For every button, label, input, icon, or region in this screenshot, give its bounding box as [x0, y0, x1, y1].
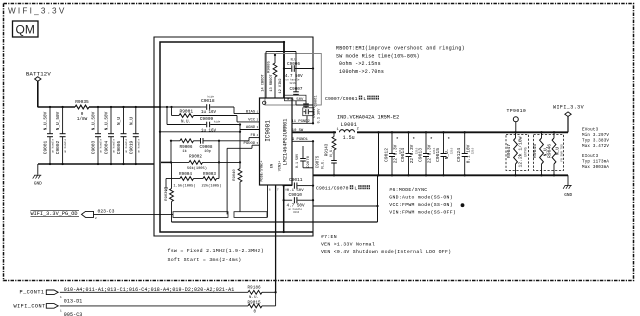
svg-text:C9011/C9070: C9011/C9070 [316, 185, 349, 191]
svg-text:GND:Auto mode(SS-ON): GND:Auto mode(SS-ON) [389, 195, 453, 201]
svg-text:BATT12V: BATT12V [26, 71, 51, 78]
wire BIAS to pin [234, 107, 260, 114]
wire R9186 to EN [262, 291, 277, 293]
svg-text:100ohm->2.70ns: 100ohm->2.70ns [339, 69, 384, 75]
wire AGND to pin [240, 129, 260, 131]
svg-text:Typ 3.383V: Typ 3.383V [582, 140, 609, 144]
net name WIFI_CONT route [64, 299, 83, 305]
svg-text:R9002: R9002 [189, 154, 202, 159]
svg-text:VIN:FPWM mode(SS-OFF): VIN:FPWM mode(SS-OFF) [389, 210, 456, 216]
wire SW [292, 131, 336, 133]
inductor L9001 [337, 114, 400, 141]
capacitor C9061 [303, 95, 318, 108]
svg-text:0.1 16V: 0.1 16V [317, 108, 321, 124]
svg-text:R9015: R9015 [248, 301, 262, 305]
wire pg loop box [173, 212, 228, 218]
svg-text:N_U: N_U [117, 117, 122, 125]
svg-text:EVT#5: EVT#5 [524, 147, 528, 157]
wire MODE/SYNC pin drop [267, 185, 269, 217]
pin PGOOD 5 [244, 142, 259, 146]
capacitor C9009 [200, 116, 240, 133]
svg-text:C9005: C9005 [116, 140, 122, 154]
svg-text:C9001: C9001 [43, 140, 49, 154]
note label C9007/C9061 L-type [325, 96, 379, 102]
svg-text:SW mode Rise time(10%-80%): SW mode Rise time(10%-80%) [336, 53, 420, 59]
input port P_CONT1 [20, 289, 63, 298]
outer block box [154, 37, 313, 236]
svg-text:un handle: un handle [63, 139, 67, 153]
capacitor C9002 [55, 106, 67, 165]
wire R9002 row extension [219, 161, 240, 163]
svg-text:3216: 3216 [289, 82, 296, 85]
svg-text:hide: hide [208, 95, 215, 99]
pin AGND 3 [246, 126, 259, 130]
svg-text:un handle: un handle [112, 139, 116, 153]
svg-text:2: 2 [357, 128, 359, 132]
svg-text:C9010: C9010 [289, 192, 303, 198]
svg-text:N_U_50V: N_U_50V [56, 111, 61, 130]
capacitor C9010 [284, 192, 314, 214]
svg-text:P_CONT1: P_CONT1 [20, 289, 45, 295]
pin label EN [270, 164, 279, 192]
svg-text:1u 16V: 1u 16V [201, 111, 217, 115]
svg-text:Max 3003mA: Max 3003mA [582, 166, 609, 170]
pin 9 PGND1 [292, 138, 314, 142]
svg-text:C9011: C9011 [289, 177, 303, 183]
svg-text:C9018: C9018 [201, 98, 215, 104]
resistor R9045 [532, 131, 548, 176]
wire R9001 row [172, 107, 180, 116]
note MODE/SYNC [389, 187, 464, 216]
input port WIFI_CONT [14, 304, 63, 313]
svg-text:R9040: R9040 [233, 169, 237, 181]
wire gnd link y206 [313, 205, 378, 207]
inner power ring wire [160, 42, 313, 232]
svg-text:L: L [363, 96, 366, 102]
svg-text:N_U_50V: N_U_50V [92, 111, 97, 130]
note RBOOT [336, 45, 465, 75]
svg-text:WIFI_3.3V: WIFI_3.3V [8, 7, 66, 16]
svg-text:FB SNR TBD: FB SNR TBD [560, 144, 563, 162]
svg-text:C9008: C9008 [200, 145, 213, 150]
wire FB to pin [210, 138, 260, 142]
svg-text:N_U.: N_U. [322, 159, 326, 168]
svg-text:R9143: R9143 [326, 143, 330, 156]
svg-text:0.1 50V: 0.1 50V [296, 153, 300, 168]
svg-text:Min 3.297V: Min 3.297V [582, 133, 609, 138]
svg-text:005-C3: 005-C3 [64, 312, 83, 316]
svg-text:N.U.: N.U. [181, 121, 191, 125]
svg-text:R9006: R9006 [180, 145, 193, 150]
capacitor C9001 [43, 106, 55, 165]
svg-text:MODE/SYNC+: MODE/SYNC+ [260, 160, 265, 181]
svg-text:3216: 3216 [472, 147, 475, 154]
snubber C9075 [316, 150, 336, 176]
dashed box R9047 [506, 135, 529, 171]
snubber R9143 [326, 131, 336, 157]
wire boot link [276, 52, 296, 92]
test point TP9010 [507, 108, 527, 132]
resistor R9047 [506, 131, 527, 176]
input rail (12V) left segment [38, 106, 76, 108]
wire gnd return riser [376, 175, 378, 222]
svg-text:WIFI_3.3V: WIFI_3.3V [553, 104, 584, 110]
svg-text:R9005: R9005 [268, 61, 272, 73]
wire C9009 row [167, 107, 201, 125]
svg-text:N.U.: N.U. [249, 296, 259, 300]
svg-text:023-C3: 023-C3 [98, 208, 115, 214]
svg-text:hide: hide [214, 119, 221, 123]
svg-text:C9006: C9006 [287, 62, 300, 67]
wire EN vertical [275, 185, 277, 292]
svg-text:N_U_50V: N_U_50V [44, 111, 49, 130]
shield box around boot network (gray) [265, 54, 321, 106]
pin label CBOOT [262, 74, 266, 92]
output ground rail [313, 174, 568, 176]
svg-text:14 CBOOT: 14 CBOOT [262, 74, 266, 92]
wire FB net right vertical [218, 141, 220, 179]
svg-text:EVout3: EVout3 [582, 128, 599, 132]
IC ref IC9001 [265, 120, 272, 142]
capacitor C9124 [456, 131, 474, 176]
svg-text:C9012: C9012 [383, 148, 389, 162]
input rail (12V) right segment [89, 106, 160, 108]
note EN thresholds [321, 234, 451, 255]
resistor R9004 [166, 172, 196, 189]
resistor R9046 [546, 131, 563, 176]
net name P_CONT1 route [64, 287, 235, 293]
svg-text:C9017: C9017 [313, 106, 317, 117]
svg-text:R9046: R9046 [546, 144, 552, 158]
wire BIAS row [159, 106, 201, 108]
svg-text:VIN1+: VIN1+ [279, 161, 283, 172]
svg-text:un handle: un handle [99, 139, 103, 153]
svg-text:C9019: C9019 [128, 140, 134, 154]
svg-text:QM: QM [16, 23, 35, 37]
wire PG_OD line [94, 213, 174, 215]
wire gnd stitch [377, 131, 379, 176]
svg-text:VEN >1.33V Normal: VEN >1.33V Normal [321, 242, 375, 248]
capacitor C9011 [284, 177, 314, 193]
svg-text:WIFI_CONT: WIFI_CONT [14, 304, 46, 310]
svg-text:3216: 3216 [450, 147, 453, 154]
svg-text:12 VIN2: 12 VIN2 [279, 78, 283, 93]
IC U9001 body [260, 98, 293, 185]
wire FB row left [170, 140, 180, 142]
svg-text:R9001: R9001 [180, 108, 194, 114]
resistor R9005 [268, 54, 277, 98]
svg-text:R9047: R9047 [506, 144, 512, 158]
wire PGOOD pin drop [227, 145, 259, 214]
capacitor C9005 [116, 106, 128, 165]
capacitor C9007 [285, 87, 314, 105]
capacitor C9013 [417, 131, 435, 176]
svg-text:VEN <0.4V Shutdown mode(Inte: VEN <0.4V Shutdown mode(Internal LDO OFF… [321, 249, 451, 255]
svg-text:3216: 3216 [293, 211, 300, 214]
wire mid vertical [239, 123, 241, 168]
wire Vout sense stub [161, 161, 172, 163]
wire WIFI_CONT [60, 305, 248, 307]
svg-text:N_U: N_U [129, 117, 134, 125]
resistor R9002 [171, 154, 219, 171]
ground GND (input) [33, 175, 42, 186]
svg-text:*: * [412, 137, 415, 143]
capacitor C9018 [201, 95, 235, 116]
svg-text:C9075: C9075 [316, 155, 320, 168]
svg-text:1: 1 [337, 128, 339, 132]
output rail [357, 131, 568, 133]
svg-text:1/8W: 1/8W [77, 117, 88, 122]
wire FB net left vertical [170, 141, 172, 163]
svg-text:C9007/C9061: C9007/C9061 [325, 96, 358, 102]
svg-text:1.5u: 1.5u [343, 135, 355, 141]
svg-text:R9045: R9045 [532, 144, 538, 158]
svg-text:C9007: C9007 [290, 87, 303, 92]
wire BATT12V to input rail [37, 81, 39, 107]
wire row D [159, 131, 241, 133]
svg-text:*: * [430, 137, 433, 143]
svg-text:0ohm ->2.15ns: 0ohm ->2.15ns [339, 61, 381, 67]
wire R9015 to EN [262, 292, 276, 306]
resistor R9186 [248, 287, 263, 301]
svg-text:R9186: R9186 [248, 287, 262, 291]
svg-text:1.5k(1005): 1.5k(1005) [173, 183, 195, 188]
svg-text:C9015: C9015 [435, 148, 441, 162]
svg-text:0: 0 [81, 112, 84, 117]
svg-text:#7:EN: #7:EN [321, 234, 337, 240]
svg-text:C9002: C9002 [55, 140, 61, 154]
pin label RBOOT [270, 74, 274, 92]
wire gnd stem left [37, 164, 39, 175]
grade box QM [13, 21, 39, 37]
svg-text:RBOOT:EMI(improve overshoot an: RBOOT:EMI(improve overshoot and ringing) [336, 45, 465, 51]
page title WIFI_3.3V [8, 7, 66, 16]
svg-text:13 RBOOT: 13 RBOOT [270, 74, 274, 92]
svg-text:C9070: C9070 [307, 155, 311, 168]
capacitor C9008 [194, 138, 213, 154]
svg-text:1k: 1k [182, 149, 187, 154]
pin 10 SW [292, 129, 304, 133]
svg-text:EIout3: EIout3 [582, 155, 599, 159]
wire r9040 loop box [234, 212, 267, 218]
svg-text:C9013: C9013 [417, 148, 423, 162]
pin FB 4 [251, 134, 259, 138]
capacitor C9019 [128, 106, 140, 165]
capacitor C9070 [296, 146, 313, 168]
resistor R9001 [179, 108, 194, 124]
svg-text:VCC:FPWM mode(SS-ON): VCC:FPWM mode(SS-ON) [389, 202, 453, 208]
resistor R9006 [180, 139, 194, 154]
svg-text:*: * [447, 137, 450, 143]
pin 11 PGND2 [292, 120, 315, 125]
power flag WIFI_3.3V out [553, 104, 584, 132]
svg-text:*: * [396, 137, 399, 143]
svg-text:56k(1005): 56k(1005) [187, 166, 207, 171]
svg-text:un handle: un handle [124, 139, 128, 153]
resistor R9035 [75, 99, 89, 122]
capacitor C9003 [91, 106, 103, 165]
net name clipped [64, 312, 83, 316]
svg-text:C9014: C9014 [400, 148, 406, 162]
capacitor C9004 [104, 106, 116, 165]
wire VIN2 drop [283, 41, 285, 98]
note Vout spec [582, 128, 609, 149]
svg-text:Soft Start = 3ms(2-4ms): Soft Start = 3ms(2-4ms) [168, 257, 242, 263]
svg-text:R9004: R9004 [179, 172, 192, 177]
wire out gnd stem [567, 175, 569, 185]
svg-text:#6:MODE/SYNC: #6:MODE/SYNC [389, 187, 427, 193]
svg-text:C9061: C9061 [314, 95, 318, 107]
IC part number [283, 119, 289, 166]
note fsw [168, 248, 264, 263]
resistor R9003 [194, 172, 222, 189]
svg-text:un handle: un handle [51, 139, 55, 153]
svg-text:EN: EN [270, 164, 274, 168]
svg-text:C9003: C9003 [91, 140, 97, 154]
capacitor C9012 [383, 131, 401, 176]
svg-text:fsw = Fixed 2.1MHz(1.9-2.3MHz): fsw = Fixed 2.1MHz(1.9-2.3MHz) [168, 248, 264, 254]
svg-text:R9039: R9039 [165, 189, 169, 201]
pin label MODE/SYNC [260, 160, 272, 191]
svg-text:22k(1005): 22k(1005) [202, 183, 222, 188]
svg-text:N_U.: N_U. [330, 147, 334, 156]
svg-text:Typ 1173mA: Typ 1173mA [582, 160, 609, 164]
pin BIAS 1 [246, 111, 259, 115]
svg-text:N_U_50V: N_U_50V [105, 111, 110, 130]
svg-text:R9003: R9003 [203, 172, 216, 177]
net port WIFI_3.3V_PG_OD [31, 208, 115, 220]
svg-text:C9124: C9124 [456, 148, 462, 162]
note label C9011/C9070 L-type [316, 185, 370, 191]
svg-text:TP9010: TP9010 [507, 108, 527, 114]
svg-text:IC9001: IC9001 [265, 120, 272, 142]
svg-text:un handle: un handle [136, 139, 140, 153]
svg-text:GND: GND [34, 182, 42, 187]
resistor R9040 [233, 169, 242, 212]
capacitor C9014 [400, 131, 418, 176]
svg-text:013-D1: 013-D1 [64, 299, 83, 305]
note Iout spec [582, 155, 609, 170]
wire gnd return bottom [172, 221, 378, 223]
ground GND (output) [563, 185, 572, 197]
svg-text:GND: GND [564, 193, 572, 198]
resistor R9039 [165, 162, 173, 222]
svg-text:L9001: L9001 [341, 122, 358, 128]
capacitor C9006 [284, 58, 314, 85]
wire P_CONT1 [60, 291, 248, 293]
capacitor C9015 [435, 131, 453, 176]
resistor R9015 [248, 301, 263, 314]
wire divider gnd stub [164, 179, 168, 191]
svg-text:R9035: R9035 [75, 99, 89, 105]
svg-text:IND.VCHA042A 1R5M-E2: IND.VCHA042A 1R5M-E2 [337, 114, 399, 120]
pin label VIN2 [279, 78, 283, 93]
svg-text:Max 3.472V: Max 3.472V [582, 145, 609, 149]
capacitor C9017 [303, 106, 322, 123]
svg-text:L: L [354, 185, 357, 191]
power flag BATT12V [26, 71, 51, 82]
wire VIN1 drop [283, 184, 285, 233]
wire CBOOT pin14 up [266, 52, 276, 99]
svg-text:C9004: C9004 [104, 140, 110, 154]
wire VCC to pin [194, 116, 260, 122]
svg-text:C9009: C9009 [200, 116, 214, 122]
input ground rail [38, 163, 154, 165]
svg-text:LM21464PGJURR01: LM21464PGJURR01 [283, 119, 289, 166]
svg-text:10p: 10p [204, 150, 212, 154]
pin VCC 2 [248, 118, 258, 122]
pin label VIN1 [279, 161, 288, 192]
dashed box R9045 R9046 [534, 135, 564, 171]
